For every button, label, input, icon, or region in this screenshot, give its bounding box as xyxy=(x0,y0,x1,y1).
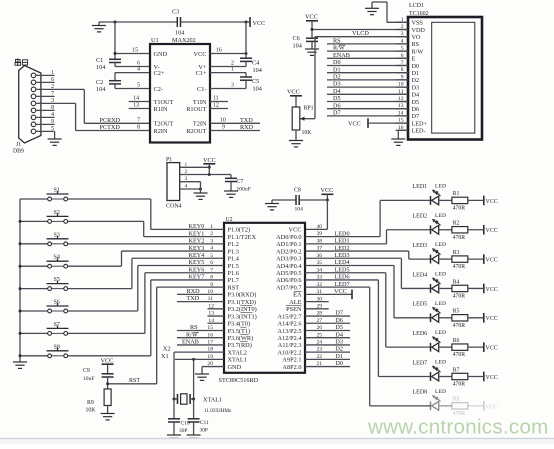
wire net LED6 from U2 pin 33 xyxy=(305,274,431,377)
ground (top rail left) xyxy=(92,22,106,32)
svg-text:A8P2.0: A8P2.0 xyxy=(282,364,301,371)
svg-text:A12/P2.4: A12/P2.4 xyxy=(278,335,303,342)
svg-text:C5: C5 xyxy=(252,78,259,85)
svg-text:18: 18 xyxy=(207,347,213,353)
svg-text:AD0/P0.0: AD0/P0.0 xyxy=(276,234,301,241)
overline marks xyxy=(193,45,345,342)
wire U2 pin 20 GND xyxy=(202,361,224,374)
LCD pin 13 xyxy=(396,103,409,109)
wire net VLCD to LCD pin3 VO xyxy=(315,30,408,119)
capacitor C2 xyxy=(96,79,121,93)
svg-text:25: 25 xyxy=(317,332,323,338)
svg-text:RXD: RXD xyxy=(240,124,254,131)
svg-text:LED5: LED5 xyxy=(335,266,350,273)
capacitor C10 30P xyxy=(168,399,190,434)
wire U1 pin 1 xyxy=(210,67,246,77)
svg-text:LED3: LED3 xyxy=(413,243,428,249)
LCD pin 1 xyxy=(396,17,409,23)
svg-text:11: 11 xyxy=(213,96,219,102)
resistor R2 470R xyxy=(452,221,468,241)
svg-text:P1.4: P1.4 xyxy=(228,256,240,263)
svg-text:24: 24 xyxy=(317,340,323,346)
svg-text:10: 10 xyxy=(220,117,226,123)
ground (button bus) xyxy=(13,362,27,368)
wire GND drop to U1 pin15 xyxy=(114,22,116,59)
wire net KEY3 to U2 pin 4 xyxy=(68,245,224,266)
svg-text:36: 36 xyxy=(317,253,323,259)
svg-text:11: 11 xyxy=(398,89,404,95)
svg-text:16: 16 xyxy=(207,332,213,338)
svg-text:6: 6 xyxy=(137,61,140,67)
svg-text:2: 2 xyxy=(185,169,188,175)
wire top rail left segment xyxy=(99,21,177,23)
pushbutton S2 xyxy=(19,210,69,223)
svg-text:22: 22 xyxy=(317,354,323,360)
svg-text:AD3/P0.3: AD3/P0.3 xyxy=(276,256,301,263)
svg-text:VCC: VCC xyxy=(305,14,318,21)
svg-text:LED7: LED7 xyxy=(335,281,350,288)
svg-text:R7: R7 xyxy=(453,367,460,373)
connector J1 DB9 body xyxy=(13,58,41,154)
wire net D3 to LCD xyxy=(327,81,408,88)
wire C5 to U1 pin 3 xyxy=(210,80,246,88)
svg-text:XTAL2: XTAL2 xyxy=(228,349,247,356)
wire DB9 pin 1 xyxy=(36,70,55,76)
svg-text:16: 16 xyxy=(216,48,222,54)
resistor R3 470R xyxy=(452,250,468,270)
svg-text:26: 26 xyxy=(317,325,323,331)
LCD pin 8 xyxy=(396,67,409,73)
svg-text:C1+: C1+ xyxy=(196,70,207,77)
ground (DB9 pin 5) xyxy=(48,131,62,145)
wire net R/W to LCD xyxy=(327,45,408,52)
svg-text:12: 12 xyxy=(213,103,219,109)
pushbutton S7 xyxy=(19,322,69,335)
capacitor C8 xyxy=(272,188,303,213)
wire net RXD to U2 pin 10 xyxy=(177,288,224,295)
svg-text:470R: 470R xyxy=(453,382,466,388)
svg-text:KEY7: KEY7 xyxy=(189,274,205,281)
svg-text:D5: D5 xyxy=(412,99,420,106)
svg-text:VCC: VCC xyxy=(486,258,498,264)
svg-text:15: 15 xyxy=(132,48,138,54)
svg-text:X2: X2 xyxy=(163,346,171,353)
wire net KEY4 to U2 pin 5 xyxy=(68,252,224,289)
svg-text:RS: RS xyxy=(333,38,341,45)
svg-text:VCC: VCC xyxy=(486,316,498,322)
wire net LED1 from U2 pin 38 xyxy=(305,230,431,245)
svg-text:VCC: VCC xyxy=(289,227,302,234)
svg-text:KEY6: KEY6 xyxy=(189,266,205,273)
wire VCC drop xyxy=(245,22,247,58)
ground (P1) xyxy=(194,193,208,199)
svg-text:P3.6(WR): P3.6(WR) xyxy=(228,335,254,342)
svg-text:3: 3 xyxy=(231,83,234,89)
wire U1 pin 13 stub xyxy=(129,103,150,109)
pushbutton S4 xyxy=(19,255,69,268)
capacitor C3 xyxy=(172,9,184,37)
wire DB9 pin3 riser to PCTXD xyxy=(75,103,77,130)
svg-text:10uF: 10uF xyxy=(83,376,95,382)
svg-text:S6: S6 xyxy=(54,300,60,306)
wire DB9 pin 2 xyxy=(36,84,85,90)
svg-text:17: 17 xyxy=(207,340,213,346)
wire C2 to U1 pin 5 xyxy=(115,83,150,89)
svg-text:12: 12 xyxy=(398,96,404,102)
svg-text:U2: U2 xyxy=(226,217,233,223)
LED LED7 xyxy=(413,360,452,381)
svg-text:AD2/P0.2: AD2/P0.2 xyxy=(276,248,301,255)
svg-text:RP1: RP1 xyxy=(304,106,314,112)
LCD pin 14 xyxy=(396,110,409,116)
svg-text:ENAB: ENAB xyxy=(333,52,350,59)
pushbutton S5 xyxy=(19,277,69,290)
svg-text:PCTXD: PCTXD xyxy=(100,124,121,131)
svg-text:R5: R5 xyxy=(453,309,460,315)
svg-text:1: 1 xyxy=(185,162,188,168)
wire net X2 to U2 pin 18 xyxy=(163,346,224,353)
svg-text:S2: S2 xyxy=(54,210,60,216)
svg-text:LED-: LED- xyxy=(412,128,426,135)
power VCC (LED3) xyxy=(468,254,498,264)
svg-text:30: 30 xyxy=(317,296,323,302)
svg-text:R1: R1 xyxy=(453,191,460,197)
wire LCD pin2 VDD xyxy=(311,28,409,31)
power VCC (top rail) xyxy=(250,17,265,27)
ground (C7) xyxy=(224,182,238,198)
pushbutton S3 xyxy=(19,232,69,245)
svg-text:C11: C11 xyxy=(200,420,209,426)
wire net ENAB to LCD xyxy=(327,52,408,59)
svg-text:104: 104 xyxy=(253,85,262,92)
wire DB9 pin 5 xyxy=(36,126,55,132)
svg-text:30P: 30P xyxy=(200,428,208,434)
svg-text:1: 1 xyxy=(231,67,234,73)
svg-text:RS: RS xyxy=(412,41,420,48)
wire net D3 from U2 pin 24 xyxy=(305,339,350,346)
svg-text:AD6/P0.6: AD6/P0.6 xyxy=(276,277,301,284)
svg-text:T2IN: T2IN xyxy=(193,121,207,128)
LCD pin 5 xyxy=(396,46,409,52)
svg-text:P3.5(T1): P3.5(T1) xyxy=(228,328,251,335)
svg-text:TXD: TXD xyxy=(187,295,200,302)
svg-text:PCRXD: PCRXD xyxy=(100,117,121,124)
svg-text:104: 104 xyxy=(96,86,105,93)
wire C1 to U1 pin 6 xyxy=(115,61,150,67)
svg-text:9: 9 xyxy=(222,125,225,131)
wire U2 pin 13 stub xyxy=(208,311,225,317)
wire LCD pin1 VSS xyxy=(387,21,408,23)
svg-text:A15/P2.7: A15/P2.7 xyxy=(278,313,302,320)
svg-text:A13/P2.5: A13/P2.5 xyxy=(278,328,302,335)
svg-text:6: 6 xyxy=(210,260,213,266)
svg-text:S1: S1 xyxy=(54,188,60,194)
svg-text:D2: D2 xyxy=(333,74,341,81)
wire net TXD to U2 pin 11 xyxy=(177,295,224,302)
svg-text:TXD: TXD xyxy=(240,117,253,124)
svg-text:D4: D4 xyxy=(412,92,420,99)
wire U2 pin 29 PSEN stub xyxy=(305,304,329,310)
potentiometer RP1 10K xyxy=(292,106,315,137)
svg-text:S7: S7 xyxy=(54,322,60,328)
svg-text:104: 104 xyxy=(293,42,302,49)
svg-text:D4: D4 xyxy=(333,88,341,95)
svg-text:VO: VO xyxy=(412,34,421,41)
svg-text:470R: 470R xyxy=(453,264,466,270)
svg-text:T2OUT: T2OUT xyxy=(154,121,174,128)
resistor R4 470R xyxy=(452,279,468,299)
svg-text:S3: S3 xyxy=(54,232,60,238)
svg-text:LED6: LED6 xyxy=(413,331,428,337)
svg-text:VCC: VCC xyxy=(101,357,114,364)
LCD pin 3 xyxy=(396,31,409,37)
svg-text:GND: GND xyxy=(228,364,242,371)
connector P1 CON4 xyxy=(166,157,182,209)
wire net LED0 from U2 pin 39 xyxy=(305,200,431,237)
wire net RXD from U1 pin 9 xyxy=(210,124,260,131)
svg-text:STC89C516RD: STC89C516RD xyxy=(219,377,259,384)
svg-text:23: 23 xyxy=(317,347,323,353)
capacitor C11 30P xyxy=(188,399,210,434)
svg-text:T1IN: T1IN xyxy=(193,99,207,106)
wire net PCRXD to U1 pin 7 xyxy=(84,117,150,124)
svg-text:VSS: VSS xyxy=(412,20,424,27)
wire DB9 pin 9 xyxy=(36,119,55,125)
svg-text:LED4: LED4 xyxy=(335,259,350,266)
wire net D7 from U2 pin 28 xyxy=(305,310,350,317)
power VCC (LCD LED+) xyxy=(348,118,408,128)
wire LCD pin16 LED- xyxy=(398,130,408,139)
svg-text:VCC: VCC xyxy=(203,157,216,164)
svg-text:VLCD: VLCD xyxy=(352,30,369,37)
power VCC (LED4) xyxy=(468,284,498,294)
svg-text:KEY1: KEY1 xyxy=(189,230,205,237)
svg-text:LED2: LED2 xyxy=(335,245,350,252)
power VCC (LED8) xyxy=(468,401,498,411)
wire net KEY5 to U2 pin 6 xyxy=(68,259,224,311)
wire X2 riser xyxy=(173,352,175,399)
svg-text:LED: LED xyxy=(435,271,446,277)
wire U1 pin 16 to VCC xyxy=(210,48,248,55)
power VCC (LED7) xyxy=(468,372,498,382)
svg-text:1: 1 xyxy=(51,70,54,76)
wire DB9 pin 7 xyxy=(36,91,55,97)
svg-text:104: 104 xyxy=(253,67,262,74)
svg-text:A10/P2.2: A10/P2.2 xyxy=(278,349,302,356)
svg-text:DB9: DB9 xyxy=(13,149,24,155)
LCD pin 15 xyxy=(396,118,409,124)
svg-text:2: 2 xyxy=(231,61,234,67)
svg-text:32: 32 xyxy=(317,282,323,288)
ground (LCD LED-) xyxy=(391,139,405,145)
pushbutton S6 xyxy=(19,300,69,313)
svg-text:R4: R4 xyxy=(453,279,460,285)
svg-text:LED4: LED4 xyxy=(413,272,428,278)
svg-text:A9P2.1: A9P2.1 xyxy=(282,357,301,364)
wire net LED7 from U2 pin 32 xyxy=(305,281,431,406)
svg-text:5: 5 xyxy=(401,46,404,52)
capacitor C1 xyxy=(96,57,121,71)
svg-text:7: 7 xyxy=(401,60,404,66)
svg-text:VCC: VCC xyxy=(287,89,300,96)
svg-text:R8: R8 xyxy=(453,397,460,403)
wire U1 pin 11 stub xyxy=(210,96,228,102)
resistor R7 470R xyxy=(452,367,468,387)
wire net RS to U2 pin 15 xyxy=(177,324,224,331)
wire net LED2 from U2 pin 37 xyxy=(305,245,431,259)
svg-text:9: 9 xyxy=(401,74,404,80)
svg-text:8: 8 xyxy=(210,275,213,281)
wire net TXD from U1 pin 10 xyxy=(210,117,260,124)
svg-text:11.0592HMz: 11.0592HMz xyxy=(204,408,232,414)
wire DB9 pin2 riser to PCRXD xyxy=(83,89,85,123)
wire net KEY0 to U2 pin 1 xyxy=(68,199,224,230)
wire net D1 from U2 pin 22 xyxy=(305,353,350,360)
svg-text:34: 34 xyxy=(317,267,323,273)
svg-text:VCC: VCC xyxy=(334,288,347,295)
svg-text:AD1/P0.1: AD1/P0.1 xyxy=(276,241,301,248)
svg-text:10K: 10K xyxy=(302,130,313,136)
power VCC (reset) xyxy=(101,357,114,374)
wire X1 riser xyxy=(193,359,195,399)
svg-text:P3.2(INT0): P3.2(INT0) xyxy=(228,306,257,313)
svg-text:S8: S8 xyxy=(54,344,60,350)
svg-text:D3: D3 xyxy=(335,339,343,346)
svg-text:R1IN: R1IN xyxy=(154,106,168,113)
svg-text:LED: LED xyxy=(435,213,446,219)
LCD pin 9 xyxy=(396,74,409,80)
svg-text:VCC: VCC xyxy=(348,121,361,128)
svg-text:T1OUT: T1OUT xyxy=(154,99,174,106)
wire net RS to LCD xyxy=(327,38,408,45)
svg-text:13: 13 xyxy=(133,103,139,109)
LCD pin 11 xyxy=(396,89,409,95)
svg-text:104: 104 xyxy=(295,207,304,213)
svg-text:100uF: 100uF xyxy=(237,187,251,193)
LED LED3 xyxy=(413,242,452,263)
svg-text:P1: P1 xyxy=(166,157,172,163)
wire DB9 pin 6 xyxy=(36,77,55,83)
svg-text:C4: C4 xyxy=(252,60,259,67)
svg-text:P3.3(INT1): P3.3(INT1) xyxy=(228,313,257,320)
svg-text:7: 7 xyxy=(51,91,54,97)
svg-text:RST: RST xyxy=(129,378,140,384)
svg-text:9: 9 xyxy=(51,119,54,125)
ground (C6) xyxy=(305,41,319,55)
capacitor C4 xyxy=(240,58,262,74)
svg-text:KEY0: KEY0 xyxy=(189,223,205,230)
svg-text:9: 9 xyxy=(210,282,213,288)
svg-text:33: 33 xyxy=(317,275,323,281)
wire net LED3 from U2 pin 36 xyxy=(305,252,431,288)
svg-text:D3: D3 xyxy=(412,84,420,91)
svg-text:LED: LED xyxy=(435,183,446,189)
svg-text:P3.0(RXD): P3.0(RXD) xyxy=(228,292,257,299)
wire P1 pin 4 xyxy=(180,184,202,191)
svg-text:KEY2: KEY2 xyxy=(189,238,205,245)
wire U2 pin 12 stub xyxy=(208,303,225,309)
svg-text:20: 20 xyxy=(207,361,213,367)
crystal XTAL1 11.0592MHz xyxy=(173,394,233,414)
svg-text:470R: 470R xyxy=(453,293,466,299)
svg-text:D5: D5 xyxy=(333,95,341,102)
svg-text:10: 10 xyxy=(207,289,213,295)
svg-text:3: 3 xyxy=(401,31,404,37)
svg-text:D0: D0 xyxy=(333,59,341,66)
LCD pin 10 xyxy=(396,82,409,88)
svg-text:13: 13 xyxy=(398,103,404,109)
svg-text:470R: 470R xyxy=(453,235,466,241)
svg-text:LED: LED xyxy=(435,242,446,248)
svg-text:D1: D1 xyxy=(412,70,420,77)
svg-text:12: 12 xyxy=(208,303,214,309)
svg-text:AD4/P0.4: AD4/P0.4 xyxy=(276,263,302,270)
svg-text:C7: C7 xyxy=(237,179,244,185)
resistor R8 470R xyxy=(452,397,468,417)
svg-text:D6: D6 xyxy=(335,317,343,324)
wire net D4 to LCD xyxy=(327,88,408,95)
svg-text:5: 5 xyxy=(51,126,54,132)
LED LED8 xyxy=(413,389,452,410)
node junction rail/U1 GND drop xyxy=(114,21,117,24)
wire net D2 from U2 pin 23 xyxy=(305,346,350,353)
svg-text:1: 1 xyxy=(210,224,213,230)
svg-text:C2: C2 xyxy=(96,79,103,86)
svg-text:21: 21 xyxy=(317,361,323,367)
svg-text:13: 13 xyxy=(208,311,214,317)
svg-text:11: 11 xyxy=(208,296,214,302)
svg-text:LED5: LED5 xyxy=(413,302,428,308)
LCD pin 7 xyxy=(396,60,409,66)
ground (C8) xyxy=(265,200,279,210)
svg-text:R2IN: R2IN xyxy=(154,128,168,135)
pushbutton S1 xyxy=(20,188,69,201)
svg-text:27: 27 xyxy=(317,318,323,324)
power VCC (LED2) xyxy=(468,225,498,235)
wire net KEY6 to U2 pin 7 xyxy=(68,266,224,333)
capacitor C9 10uF xyxy=(83,368,114,382)
ground (R9) xyxy=(101,406,115,420)
svg-text:7: 7 xyxy=(137,117,140,123)
svg-text:VCC: VCC xyxy=(486,199,498,205)
wire U2 pin 40 number xyxy=(317,224,323,230)
ground (RP1) xyxy=(289,130,303,147)
svg-text:VCC: VCC xyxy=(253,20,266,27)
svg-text:C6: C6 xyxy=(293,35,300,42)
wire C8 to VCC node xyxy=(299,199,329,202)
svg-text:D7: D7 xyxy=(335,310,343,317)
svg-text:4: 4 xyxy=(210,246,213,252)
svg-text:7: 7 xyxy=(210,267,213,273)
svg-text:KEY3: KEY3 xyxy=(189,245,205,252)
wire net D6 to LCD xyxy=(327,102,408,109)
pushbutton S8 xyxy=(19,344,69,357)
wire net D0 from U2 pin 21 xyxy=(305,360,350,367)
LCD pin 16 xyxy=(396,125,409,131)
svg-text:VCC: VCC xyxy=(486,404,498,410)
LCD pin 6 xyxy=(396,53,409,59)
svg-text:D2: D2 xyxy=(412,77,420,84)
svg-text:www.cntronics.com: www.cntronics.com xyxy=(367,416,549,439)
svg-text:RST: RST xyxy=(228,284,240,291)
svg-text:8: 8 xyxy=(401,67,404,73)
svg-text:XTAL1: XTAL1 xyxy=(203,397,222,404)
svg-text:14: 14 xyxy=(133,96,139,102)
svg-text:C1: C1 xyxy=(96,57,103,64)
wire net PCTXD to U1 pin 8 xyxy=(76,124,150,131)
svg-text:P1.1/T2EX: P1.1/T2EX xyxy=(228,234,257,241)
wire net KEY7 to U2 pin 8 xyxy=(68,274,224,356)
